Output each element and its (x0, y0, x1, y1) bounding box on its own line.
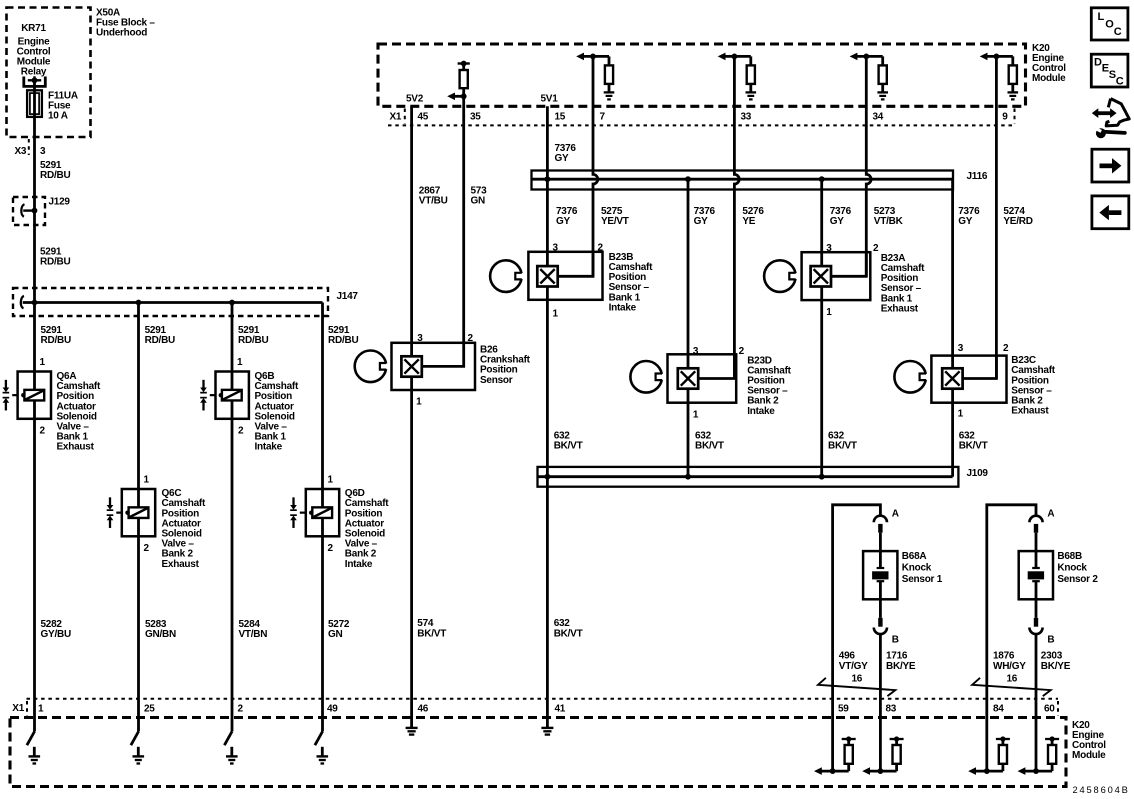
label wire 5291 RD/BU (branch 2) (145, 325, 175, 346)
svg-text:GY: GY (556, 216, 571, 227)
camshaft position sensor B23D (body) (668, 354, 737, 402)
svg-text:7: 7 (600, 112, 606, 123)
label wire 5284 VT/BN (239, 619, 268, 640)
pin 2 label (B23D) (739, 346, 745, 357)
node: J116 at 5V1 wire (545, 176, 551, 182)
svg-text:Module: Module (1032, 73, 1066, 84)
pin 3 label (B23D) (693, 346, 699, 357)
svg-text:BK/VT: BK/VT (417, 628, 446, 639)
pin 46 (418, 703, 429, 714)
resistor R4 with ground (pin 34 circuit) (850, 53, 888, 100)
svg-text:VT/BK: VT/BK (874, 216, 904, 227)
svg-text:35: 35 (470, 112, 481, 123)
svg-text:Relay: Relay (21, 67, 47, 78)
wire into B68A (879, 533, 882, 568)
bus wire in J147 (23, 301, 323, 304)
pin 35 (470, 112, 481, 123)
svg-text:1: 1 (553, 308, 559, 319)
pin 1 label (B23C) (958, 409, 964, 420)
label A (B68B) (1047, 508, 1054, 519)
svg-text:Knock: Knock (902, 563, 932, 574)
svg-text:2: 2 (328, 543, 334, 554)
pin 3 label (B23A) (826, 243, 832, 254)
arrow junction (pin 35) (447, 93, 466, 101)
icon button DESC (1091, 54, 1128, 87)
pin 2 label (B23A) (873, 243, 879, 254)
label B (B68B) (1047, 634, 1054, 645)
pin 2 label (B26) (468, 333, 474, 344)
svg-text:RD/BU: RD/BU (238, 335, 268, 346)
label K20 Engine Control Module (top) (1032, 43, 1066, 84)
wire 496 VT/GY (pin 59 to B68A) (833, 505, 881, 771)
svg-text:B: B (1047, 634, 1054, 645)
wire 7376 GY (J116 to B23A pin 3 to J109) (820, 179, 823, 477)
svg-text:Intake: Intake (255, 442, 283, 453)
icon button LOC (1091, 8, 1128, 40)
label wire 2867 VT/BU (419, 186, 448, 207)
ground (pin 46) (406, 728, 418, 735)
label A (B68A) (892, 508, 899, 519)
svg-text:83: 83 (886, 703, 897, 714)
label wire 7376 GY (above J116) (555, 143, 577, 164)
svg-text:BK/YE: BK/YE (886, 661, 916, 672)
label X50A Fuse Block - Underhood (96, 8, 155, 39)
svg-text:1: 1 (416, 396, 422, 407)
label wire 632 BK/VT (to pin 41) (554, 618, 583, 639)
label B68B Knock Sensor 2 (1057, 551, 1098, 585)
label Q6B Camshaft Position Actuator Solenoid Valve - Bank 1 Intake (255, 371, 299, 453)
label B23C Camshaft Position Sensor - Bank 2 Exhaust (1011, 355, 1055, 417)
pin 45 (418, 112, 429, 123)
icon repair tool (arrows and wrench) (1092, 99, 1129, 139)
svg-text:3: 3 (417, 333, 423, 344)
solenoid valve Q6D (290, 475, 339, 555)
wire 2867 VT/BU / 574 BK/VT (pin 45 to B26 to pin 46) (410, 106, 413, 728)
twisted pair symbol (B68A wires) (818, 678, 895, 696)
wire 5273 VT/BK (pin 34 to B23A pin 2) (831, 56, 871, 276)
label wire 573 GN (471, 186, 488, 207)
label wire 7376 GY (to B23A) (830, 206, 852, 227)
wire 5276 YE (pin 33 to B23D pin 2) (698, 56, 739, 378)
svg-text:GY: GY (958, 216, 973, 227)
crankshaft position sensor B26 (body) (392, 343, 476, 390)
wire from relay through fuse (33, 80, 36, 302)
svg-text:3: 3 (693, 346, 699, 357)
svg-text:YE/VT: YE/VT (601, 216, 629, 227)
connector X1 top row (dotted line and ticks) (388, 109, 1015, 126)
svg-text:WH/GY: WH/GY (993, 661, 1026, 672)
svg-text:VT/GY: VT/GY (839, 661, 868, 672)
label J116 (967, 171, 988, 182)
connector X3 pin 3 labels (15, 139, 47, 157)
relay KR71 contact symbol (24, 76, 46, 86)
label Q6D Camshaft Position Actuator Solenoid Valve - Bank 2 Intake (345, 488, 389, 570)
splice pack J116 (532, 171, 954, 190)
solenoid valve Q6A (3, 357, 51, 437)
svg-text:1: 1 (693, 409, 699, 420)
svg-text:1: 1 (826, 307, 832, 318)
svg-text:RD/BU: RD/BU (328, 335, 358, 346)
label wire 5272 GN (328, 619, 350, 640)
node: J116 branch to B23D (685, 176, 691, 182)
label wire 5273 VT/BK (874, 206, 904, 227)
ECM K20 bottom (dashed box) (10, 718, 1066, 787)
splice J147 (dashed box) (13, 288, 328, 316)
svg-text:2: 2 (238, 426, 244, 437)
label wire 5291 RD/BU (branch 4) (328, 325, 358, 346)
pin 3 label (B26) (417, 333, 423, 344)
svg-text:1: 1 (237, 357, 243, 368)
svg-text:RD/BU: RD/BU (145, 335, 175, 346)
pin 2 label (B23B) (598, 243, 604, 254)
camshaft position sensor B23C (circle) (894, 361, 928, 393)
pin 34 (873, 112, 884, 123)
label B23A Camshaft Position Sensor - Bank 1 Exhaust (881, 253, 925, 315)
svg-text:C: C (1114, 26, 1122, 38)
svg-text:10 A: 10 A (48, 111, 68, 122)
svg-text:GY: GY (694, 216, 709, 227)
svg-text:16: 16 (1007, 673, 1018, 684)
camshaft position sensor B23D (circle) (630, 361, 664, 393)
node: J147 junction at wire 1 (32, 300, 38, 306)
svg-text:YE: YE (742, 216, 755, 227)
svg-text:Sensor 2: Sensor 2 (1057, 574, 1098, 585)
label wire 632 BK/VT (from B23D) (695, 430, 724, 451)
internal resistor and arrow (pin 83) (862, 736, 903, 775)
label 5V2 (406, 94, 424, 105)
wire 5274 YE/RD (pin 9 to B23C pin 2) (962, 56, 996, 378)
svg-text:B68B: B68B (1057, 551, 1082, 562)
pin 7 (600, 112, 606, 123)
label J129 (49, 197, 71, 208)
svg-text:34: 34 (873, 112, 884, 123)
label B (B68A) (892, 634, 899, 645)
pin 2 (238, 703, 244, 714)
wire 7376 GY (J116 to B23D pin 3 to J109) (687, 179, 690, 477)
connector A (B68B) (1029, 516, 1042, 533)
svg-text:46: 46 (418, 703, 429, 714)
svg-text:RD/BU: RD/BU (40, 170, 70, 181)
wire 7376 GY / 632 BK/VT (pin 15 through B23B to pin 41) (546, 106, 549, 728)
svg-text:2: 2 (598, 243, 604, 254)
svg-text:2: 2 (739, 346, 745, 357)
svg-text:A: A (892, 508, 899, 519)
svg-text:Intake: Intake (345, 559, 373, 570)
label wire 632 BK/VT (from B23C) (959, 430, 988, 451)
svg-text:1: 1 (328, 475, 334, 486)
svg-text:GN: GN (328, 629, 343, 640)
svg-text:J129: J129 (49, 197, 71, 208)
label B23D Camshaft Position Sensor - Bank 2 Intake (747, 355, 791, 417)
pin 2 label (B23C) (1003, 343, 1009, 354)
ECM K20 top (dashed box) (378, 44, 1026, 106)
wire branch 3 (J147 to Q6B to pin 2) (231, 303, 234, 732)
svg-text:45: 45 (418, 112, 429, 123)
solenoid valve Q6B (200, 357, 249, 437)
camshaft position sensor B23A (body) (802, 252, 871, 300)
label K20 Engine Control Module (bottom) (1072, 720, 1106, 761)
svg-text:BK/VT: BK/VT (695, 441, 724, 452)
node: J147 junction at wire 2 (136, 300, 142, 306)
label wire 632 BK/VT (from B23B) (554, 430, 583, 451)
wire out of B68B (1035, 599, 1038, 618)
label wire 5276 YE (742, 206, 764, 227)
label wire 5291 RD/BU (segment 1) (40, 160, 70, 181)
svg-text:9: 9 (1002, 112, 1008, 123)
svg-text:VT/BN: VT/BN (239, 629, 268, 640)
node: J147 junction at wire 3 (229, 300, 235, 306)
svg-text:GY: GY (555, 153, 570, 164)
icon button forward arrow (1092, 149, 1129, 182)
camshaft position sensor B23B (circle) (490, 260, 524, 292)
svg-text:1: 1 (958, 409, 964, 420)
svg-text:Module: Module (1072, 750, 1106, 761)
pin 84 (993, 703, 1004, 714)
svg-text:3: 3 (826, 243, 832, 254)
ground (pin 49) (315, 732, 328, 764)
svg-text:Underhood: Underhood (96, 28, 147, 39)
resistor R1 (pin 35 circuit) (458, 61, 470, 97)
label wire 5291 RD/BU (branch 3) (238, 325, 268, 346)
label wire 5275 YE/VT (601, 206, 629, 227)
pin 60 (1044, 703, 1055, 714)
wire out of B68A (879, 599, 882, 618)
svg-text:BK/YE: BK/YE (1041, 661, 1071, 672)
connector B (B68B) (1029, 618, 1042, 634)
svg-text:J147: J147 (337, 291, 359, 302)
svg-text:GY/BU: GY/BU (41, 629, 71, 640)
svg-text:2458604B: 2458604B (1073, 785, 1130, 795)
svg-text:X1: X1 (12, 703, 24, 714)
resistor R5 with ground (pin 9 circuit) (980, 53, 1018, 100)
pin 25 (144, 703, 155, 714)
label 16 (twisted pair B68A) (852, 673, 863, 684)
svg-text:Exhaust: Exhaust (162, 559, 200, 570)
pin 33 (741, 112, 752, 123)
svg-text:C: C (1116, 76, 1124, 88)
svg-text:Exhaust: Exhaust (57, 442, 95, 453)
svg-text:X1: X1 (390, 112, 402, 123)
internal resistor and arrow (pin 84) (968, 736, 1010, 775)
svg-text:J116: J116 (967, 171, 988, 182)
pin 1 label (B23B) (553, 308, 559, 319)
internal resistor and arrow (pin 59) (814, 736, 856, 775)
svg-text:84: 84 (993, 703, 1004, 714)
ground (pin 2) (224, 732, 237, 764)
ground (pin 41) (541, 728, 553, 735)
label J147 (337, 291, 359, 302)
label B23B Camshaft Position Sensor - Bank 1 Intake (609, 252, 653, 314)
label wire 5283 GN/BN (145, 619, 176, 640)
svg-text:BK/VT: BK/VT (554, 441, 583, 452)
ground (pin 25) (131, 732, 144, 764)
svg-text:GN: GN (471, 196, 486, 207)
svg-text:BK/VT: BK/VT (959, 441, 988, 452)
pin 41 (555, 703, 566, 714)
svg-text:L: L (1098, 11, 1105, 23)
label wire 1716 BK/YE (886, 651, 916, 672)
node: J109 at B23A wire (819, 474, 825, 480)
wire into B68B (1035, 533, 1038, 568)
svg-text:BK/VT: BK/VT (554, 628, 583, 639)
svg-text:59: 59 (838, 703, 849, 714)
svg-text:3: 3 (958, 343, 964, 354)
splice J129 (13, 197, 45, 225)
svg-text:YE/RD: YE/RD (1003, 216, 1032, 227)
fuse block X50A (dashed box) (7, 8, 91, 138)
svg-text:5V1: 5V1 (541, 94, 559, 105)
connector B (B68A) (874, 618, 887, 634)
relay KR71 label (17, 23, 51, 78)
internal resistor and arrow (pin 60) (1018, 736, 1060, 775)
svg-text:3: 3 (553, 243, 559, 254)
icon button back arrow (1092, 196, 1129, 229)
label Q6A Camshaft Position Actuator Solenoid Valve - Bank 1 Exhaust (57, 371, 101, 453)
pin 3 label (B23C) (958, 343, 964, 354)
svg-text:GN/BN: GN/BN (145, 629, 176, 640)
svg-text:B: B (892, 634, 899, 645)
node: J109 at B23D wire (685, 474, 691, 480)
label B26 Crankshaft Position Sensor (480, 345, 531, 386)
svg-text:RD/BU: RD/BU (41, 335, 71, 346)
svg-text:BK/VT: BK/VT (828, 441, 857, 452)
pin 1 label (B26) (416, 396, 422, 407)
svg-text:49: 49 (327, 703, 338, 714)
pin 49 (327, 703, 338, 714)
label wire 5291 RD/BU (branch 1) (41, 325, 71, 346)
node: J116 branch to B23A (819, 176, 825, 182)
document number 2458604B (1073, 785, 1130, 795)
fuse F11UA (27, 90, 42, 117)
label wire 574 BK/VT (417, 618, 446, 639)
svg-text:1: 1 (144, 475, 150, 486)
svg-text:X3: X3 (15, 146, 27, 157)
label wire 5291 RD/BU (segment 2) (40, 247, 70, 268)
wire 5275 YE/VT (pin 7 to B23B pin 2) (558, 56, 598, 276)
label wire 5282 GY/BU (41, 619, 71, 640)
pin 1 (38, 703, 44, 714)
wire 1716 BK/YE (B68A to pin 83) (879, 634, 882, 771)
svg-text:D: D (1094, 57, 1102, 69)
svg-text:15: 15 (555, 112, 566, 123)
solenoid valve Q6C (107, 475, 156, 555)
label Q6C Camshaft Position Actuator Solenoid Valve - Bank 2 Exhaust (162, 488, 206, 570)
node: J109 at pin 41 wire (545, 474, 551, 480)
svg-text:60: 60 (1044, 703, 1055, 714)
label X1 (bottom) (12, 703, 24, 714)
splice pack J109 (538, 467, 959, 487)
pin 9 (1002, 112, 1008, 123)
label wire 7376 GY (to B23B) (556, 206, 578, 227)
label wire 632 BK/VT (from B23A) (828, 430, 857, 451)
wire 573 GN (pin 35 to B26 pin 2) (422, 96, 464, 366)
svg-text:1: 1 (40, 357, 46, 368)
svg-text:41: 41 (555, 703, 566, 714)
label J109 (967, 468, 989, 479)
wire branch 1 continues (Q6A to pin 1) (33, 303, 36, 732)
label wire 496 VT/GY (839, 651, 868, 672)
pin 15 (555, 112, 566, 123)
label F11UA Fuse 10 A (48, 91, 78, 122)
pin 83 (886, 703, 897, 714)
knock sensor B68A (body) (863, 551, 897, 599)
svg-text:2: 2 (873, 243, 879, 254)
wire 1876 WH/GY (pin 84 to B68B) (987, 505, 1036, 771)
svg-text:2: 2 (468, 333, 474, 344)
svg-text:Intake: Intake (609, 302, 637, 313)
svg-text:VT/BU: VT/BU (419, 196, 448, 207)
pin 1 label (B23D) (693, 409, 699, 420)
svg-text:3: 3 (40, 146, 46, 157)
pin 1 label (B23A) (826, 307, 832, 318)
svg-text:B68A: B68A (902, 551, 927, 562)
resistor R3 with ground (pin 33 circuit) (718, 53, 756, 100)
svg-text:33: 33 (741, 112, 752, 123)
label B68A Knock Sensor 1 (902, 551, 943, 585)
wire branch 4 (J147 to Q6D to pin 49) (321, 303, 324, 732)
camshaft position sensor B23C (body) (931, 356, 1006, 403)
connector X1 bottom row (dotted line and ticks) (27, 699, 1059, 716)
resistor R2 with ground (pin 7 circuit) (576, 53, 614, 100)
svg-text:Knock: Knock (1057, 563, 1087, 574)
wire branch 2 (J147 to Q6C to pin 25) (137, 303, 140, 732)
label wire 7376 GY (to B23C) (958, 206, 980, 227)
svg-text:1: 1 (38, 703, 44, 714)
label X1 (top) (390, 112, 402, 123)
pin 3 label (B23B) (553, 243, 559, 254)
svg-text:25: 25 (144, 703, 155, 714)
svg-text:GY: GY (830, 216, 845, 227)
wire 7376 GY (J116 to B23C pin 3 to J109) (951, 179, 954, 477)
svg-text:2: 2 (144, 543, 150, 554)
svg-text:KR71: KR71 (21, 23, 46, 34)
svg-text:2: 2 (1003, 343, 1009, 354)
camshaft position sensor B23A (circle) (764, 260, 798, 292)
label 16 (twisted pair B68B) (1007, 673, 1018, 684)
camshaft position sensor B23B (body) (528, 252, 602, 300)
pin 59 (838, 703, 849, 714)
svg-text:Exhaust: Exhaust (881, 303, 919, 314)
connector A (B68A) (874, 516, 887, 533)
svg-text:5V2: 5V2 (406, 94, 424, 105)
svg-text:Sensor 1: Sensor 1 (902, 574, 943, 585)
svg-text:Intake: Intake (747, 406, 775, 417)
svg-text:16: 16 (852, 673, 863, 684)
svg-text:2: 2 (238, 703, 244, 714)
label wire 1876 WH/GY (993, 651, 1026, 672)
wire 2303 BK/YE (B68B to pin 60) (1035, 634, 1038, 771)
svg-text:Exhaust: Exhaust (1011, 406, 1049, 417)
svg-text:2: 2 (40, 426, 46, 437)
knock sensor B68B (body) (1019, 551, 1053, 599)
label wire 2303 BK/YE (1041, 651, 1071, 672)
label wire 7376 GY (to B23D) (694, 206, 716, 227)
label wire 5274 YE/RD (1003, 206, 1032, 227)
svg-text:Sensor: Sensor (480, 375, 513, 386)
twisted pair symbol (B68B wires) (972, 678, 1050, 696)
ground (pin 1) (27, 732, 40, 764)
label 5V1 (541, 94, 559, 105)
svg-text:A: A (1047, 508, 1054, 519)
svg-text:RD/BU: RD/BU (40, 257, 70, 268)
crankshaft position sensor B26 (circle) (355, 351, 389, 383)
svg-text:J109: J109 (967, 468, 989, 479)
